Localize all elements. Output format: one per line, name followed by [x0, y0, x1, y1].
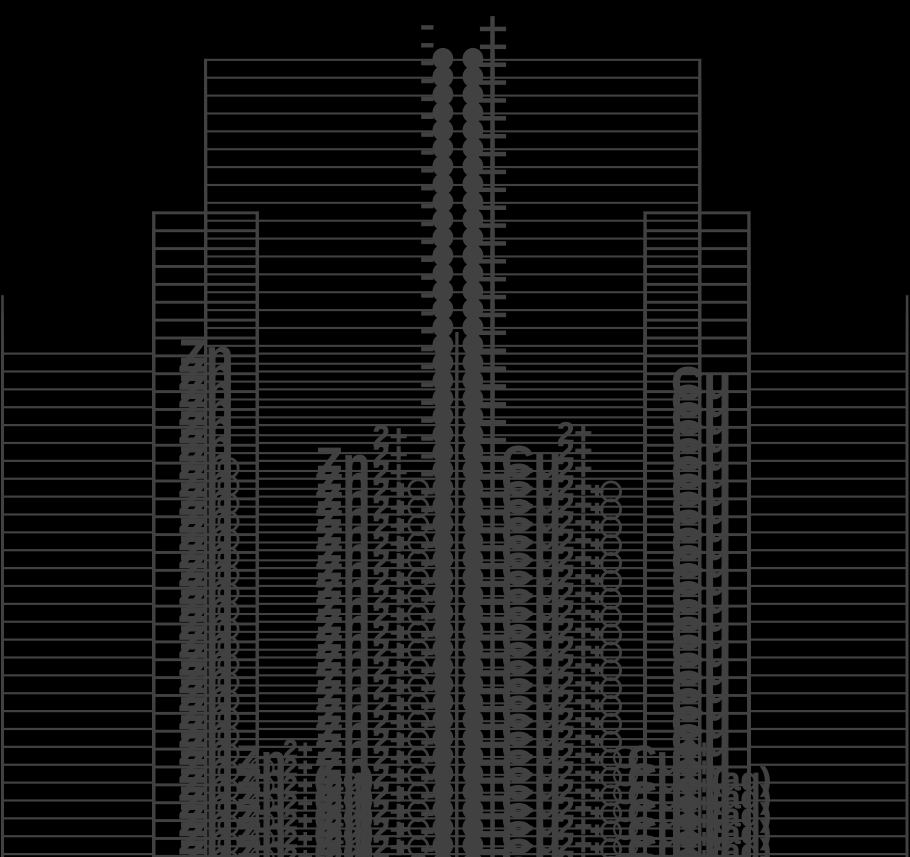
diagram copy 31	[1, 570, 908, 857]
diagram copy 19	[1, 356, 908, 857]
diagram copy 43	[1, 785, 908, 857]
diagram copy 34	[1, 624, 908, 857]
diagram copy 26	[1, 481, 908, 857]
diagram copy 36	[1, 660, 908, 857]
diagram copy 41	[1, 749, 908, 857]
diagram copy 44	[1, 803, 908, 857]
diagram copy 25	[1, 463, 908, 857]
diagram copy 28	[1, 517, 908, 857]
diagram copy 21	[1, 391, 908, 857]
diagram copy 45	[1, 820, 908, 857]
diagram copy 32	[1, 588, 908, 857]
diagram copy 35	[1, 642, 908, 857]
diagram copy 33	[1, 606, 908, 857]
diagram copy 17	[1, 320, 908, 857]
diagram copy 18	[1, 338, 908, 857]
diagram copy 14	[1, 266, 908, 857]
diagram copy 30	[1, 552, 908, 857]
diagram copy 38	[1, 695, 908, 857]
diagram copy 42	[1, 767, 908, 857]
diagram copy 15	[1, 284, 908, 857]
diagram copy 40	[1, 731, 908, 857]
diagram copy 10	[1, 195, 908, 857]
diagram copy 11	[1, 213, 908, 857]
diagram copy 46	[1, 838, 908, 857]
diagram copy 24	[1, 445, 908, 857]
diagram copy 27	[1, 499, 908, 857]
diagram copy 13	[1, 248, 908, 857]
diagram copy 22	[1, 409, 908, 857]
diagram copy 23	[1, 427, 908, 857]
diagram copy 20	[1, 374, 908, 857]
diagram copy 16	[1, 302, 908, 857]
diagram copy 29	[1, 534, 908, 857]
diagram copy 39	[1, 713, 908, 857]
diagram copy 9	[1, 177, 908, 857]
diagram copy 37	[1, 677, 908, 857]
diagram copy 12	[1, 231, 908, 857]
